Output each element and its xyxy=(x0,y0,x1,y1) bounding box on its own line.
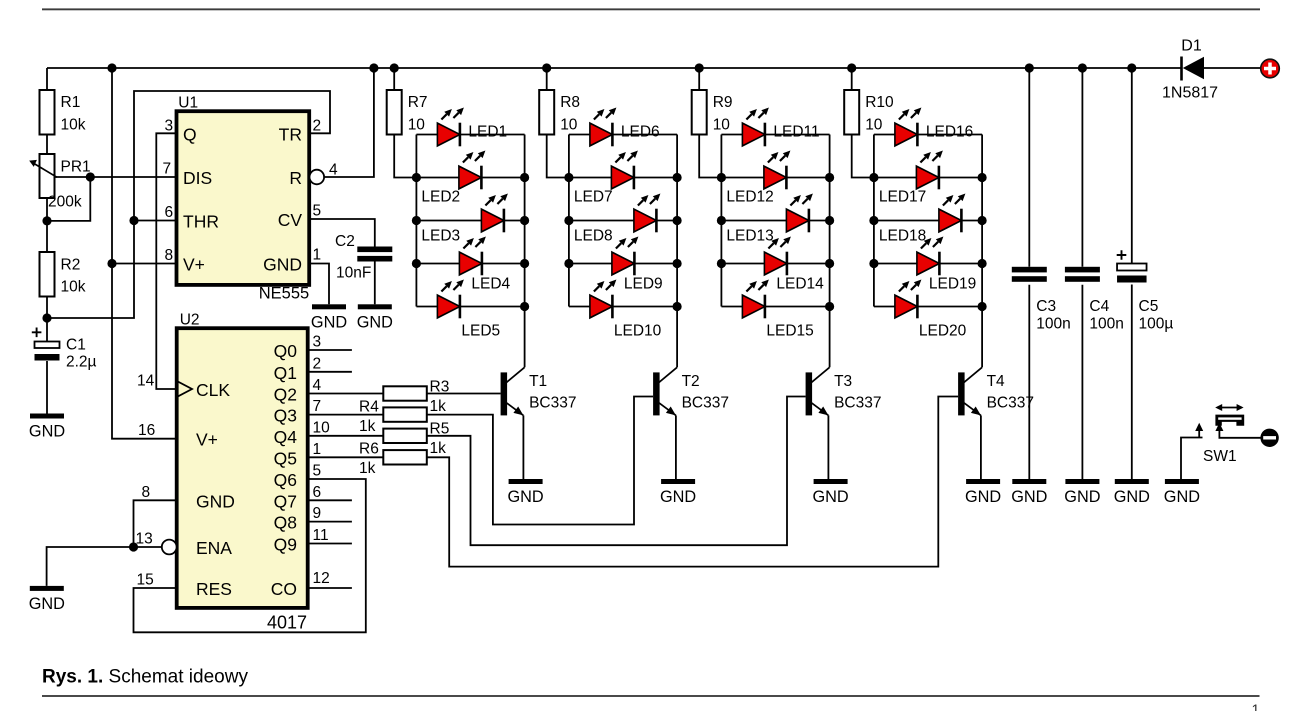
U2 pin numbers xyxy=(136,334,331,589)
LED LED1 xyxy=(437,108,507,147)
junction rail / R7 xyxy=(390,63,399,72)
svg-text:4: 4 xyxy=(313,377,322,394)
svg-text:LED13: LED13 xyxy=(726,228,773,245)
svg-text:T4: T4 xyxy=(987,373,1005,390)
wire V+ rail xyxy=(47,67,1182,69)
wire rail to R7 xyxy=(393,68,395,90)
svg-text:GND: GND xyxy=(508,488,544,506)
wire LED ladder right rail to collector xyxy=(829,135,831,368)
wire LED ladder right rail to collector xyxy=(676,135,678,368)
wire U2 Q5 to R6 xyxy=(308,456,384,458)
svg-text:C5: C5 xyxy=(1139,298,1159,315)
SW1 left contact arrow xyxy=(1195,423,1203,438)
wire T2 emitter to ground xyxy=(675,415,677,479)
junction left rail rung 3 xyxy=(564,216,573,225)
svg-text:R2: R2 xyxy=(61,257,81,274)
svg-text:4: 4 xyxy=(329,162,338,179)
svg-text:6: 6 xyxy=(165,204,174,221)
wire U2 Q3 to R4 xyxy=(308,414,384,416)
junction right rail rung 5 xyxy=(978,302,987,311)
transistor T2 xyxy=(653,367,729,415)
ground C3 xyxy=(1011,479,1047,506)
wire LED17 rung xyxy=(874,177,982,179)
ground T3 xyxy=(813,479,849,506)
junction left rail rung 3 xyxy=(869,216,878,225)
wire C4 to ground xyxy=(1081,285,1083,479)
U2 CLK triangle xyxy=(178,382,192,397)
junction THR / TR loop xyxy=(129,216,138,225)
junction left rail rung 4 xyxy=(564,259,573,268)
svg-text:R6: R6 xyxy=(359,441,379,458)
wire SW1 left contact to ground xyxy=(1181,438,1203,480)
junction left rail rung 3 xyxy=(717,216,726,225)
wire LED7 rung xyxy=(569,177,677,179)
svg-text:LED7: LED7 xyxy=(574,189,613,206)
svg-text:Q2: Q2 xyxy=(274,385,297,405)
svg-text:C2: C2 xyxy=(335,233,355,250)
svg-text:5: 5 xyxy=(313,463,322,480)
junction left rail rung 2 xyxy=(869,173,878,182)
LED LED2 xyxy=(421,151,485,206)
wire R4 to T2 base xyxy=(427,397,653,525)
wire U1 pin 8 V+ xyxy=(112,263,177,265)
svg-text:10: 10 xyxy=(713,117,731,134)
LED LED4 xyxy=(459,237,510,293)
LED LED3 xyxy=(421,194,508,245)
svg-text:100n: 100n xyxy=(1036,316,1070,333)
svg-text:GND: GND xyxy=(660,488,696,506)
resistor R8 xyxy=(539,90,580,135)
svg-text:R10: R10 xyxy=(865,94,894,111)
LED LED16 xyxy=(895,108,973,147)
svg-text:LED3: LED3 xyxy=(421,228,460,245)
svg-text:1k: 1k xyxy=(359,460,376,477)
svg-text:LED20: LED20 xyxy=(919,323,967,340)
svg-text:LED8: LED8 xyxy=(574,228,613,245)
wire rail to C5 xyxy=(1131,68,1133,264)
wire R2 to node C1 xyxy=(46,297,48,319)
LED LED18 xyxy=(879,194,966,245)
U2 output stub Q1 xyxy=(308,371,352,373)
svg-text:D1: D1 xyxy=(1181,38,1202,55)
svg-text:LED17: LED17 xyxy=(879,189,926,206)
ground T2 xyxy=(660,479,696,506)
LED LED17 xyxy=(879,151,943,206)
svg-text:CV: CV xyxy=(278,210,303,230)
svg-text:Q5: Q5 xyxy=(274,448,297,468)
wire U1 GND pin 1 to ground xyxy=(309,264,329,305)
ground C1 xyxy=(29,414,65,441)
wire LED ladder right rail to collector xyxy=(981,135,983,368)
wire D1 to plus terminal xyxy=(1204,67,1261,69)
capacitor C3 xyxy=(1012,267,1071,333)
junction left rail rung 4 xyxy=(412,259,421,268)
svg-text:10k: 10k xyxy=(61,117,86,134)
wire rail to C3 xyxy=(1028,68,1030,267)
wire U2 RES pin 15 to Q6 loop xyxy=(134,479,366,632)
svg-text:LED2: LED2 xyxy=(421,189,460,206)
wire R9 to LED ladder xyxy=(699,135,721,178)
wire LED15 rung xyxy=(721,306,829,308)
wire U2 GND pin 8 to ENA net xyxy=(134,500,177,547)
wire rail to V+ pins (U1 pin 8 and U2 pin 16) xyxy=(112,68,177,439)
svg-text:GND: GND xyxy=(1064,488,1100,506)
LED LED7 xyxy=(574,151,638,206)
svg-text:LED15: LED15 xyxy=(766,323,813,340)
wire LED ladder left rail xyxy=(568,135,570,307)
wire R5 to T3 base xyxy=(427,397,806,546)
junction V+ drop / U1 pin 8 xyxy=(107,259,116,268)
svg-text:TR: TR xyxy=(279,125,302,145)
wire TR to THR loop xyxy=(47,91,330,318)
svg-text:U1: U1 xyxy=(178,95,198,112)
wire LED ladder right rail to collector xyxy=(524,135,526,368)
wire R7 to LED ladder xyxy=(394,135,416,178)
capacitor C5 xyxy=(1117,250,1174,332)
ground C5 xyxy=(1114,479,1150,506)
wire C3 to ground xyxy=(1028,285,1030,479)
wire R3 to T1 base xyxy=(427,393,501,395)
svg-text:RES: RES xyxy=(196,579,232,599)
wire wiper tap down to R2 top node xyxy=(47,177,90,221)
svg-text:CLK: CLK xyxy=(196,380,230,400)
svg-text:14: 14 xyxy=(137,373,155,390)
svg-text:NE555: NE555 xyxy=(259,285,309,303)
svg-text:GND: GND xyxy=(965,488,1001,506)
svg-text:10k: 10k xyxy=(61,279,86,296)
junction rail / C3 xyxy=(1025,63,1034,72)
svg-text:Q8: Q8 xyxy=(274,513,297,533)
svg-text:1k: 1k xyxy=(430,440,447,457)
svg-text:LED14: LED14 xyxy=(776,276,824,293)
resistor R4 xyxy=(359,399,427,436)
svg-text:PR1: PR1 xyxy=(61,159,91,176)
wire U1 pin 6 THR xyxy=(134,220,177,222)
svg-text:1k: 1k xyxy=(359,418,376,435)
U2 output stub CO pin 12 xyxy=(308,587,352,589)
svg-text:7: 7 xyxy=(313,398,322,415)
junction PR1 bottom / R2 top xyxy=(42,216,51,225)
wire T4 emitter to ground xyxy=(980,415,982,479)
svg-text:3: 3 xyxy=(313,334,322,351)
svg-text:Q0: Q0 xyxy=(274,341,298,361)
junction right rail rung 4 xyxy=(978,259,987,268)
svg-text:GND: GND xyxy=(29,595,65,613)
junction left rail rung 2 xyxy=(717,173,726,182)
U2 output stub Q0 xyxy=(308,349,352,351)
wire U1 R pin 4 to rail xyxy=(324,68,374,177)
svg-text:16: 16 xyxy=(138,422,155,439)
svg-text:GND: GND xyxy=(263,255,302,275)
U1 pin numbers 3 7 6 8 2 4 5 1 xyxy=(163,117,339,264)
svg-text:V+: V+ xyxy=(183,255,205,275)
ground ENA xyxy=(29,586,65,613)
terminal minus supply xyxy=(1260,429,1278,447)
wire LED10 rung xyxy=(569,306,677,308)
svg-text:LED18: LED18 xyxy=(879,228,926,245)
U2 ENA inversion bubble xyxy=(162,540,177,555)
junction left rail rung 4 xyxy=(717,259,726,268)
wire PR1 to R2 xyxy=(46,198,48,252)
svg-text:T1: T1 xyxy=(529,373,547,390)
U1 pin 4 R inversion bubble xyxy=(310,170,325,185)
svg-text:100µ: 100µ xyxy=(1139,316,1174,333)
capacitor C2 xyxy=(335,233,392,282)
svg-text:ENA: ENA xyxy=(196,538,232,558)
junction right rail rung 5 xyxy=(520,302,529,311)
svg-text:5: 5 xyxy=(313,203,322,220)
wire U2 Q2 to R3 xyxy=(308,393,384,395)
diode D1 1N5817 xyxy=(1162,38,1218,102)
svg-text:T3: T3 xyxy=(834,373,852,390)
wire LED12 rung xyxy=(721,177,829,179)
junction wiper/DIS xyxy=(86,172,95,181)
wire C5 to ground xyxy=(1131,285,1133,480)
LED LED19 xyxy=(917,237,976,293)
trimmer PR1 xyxy=(29,154,90,211)
svg-text:7: 7 xyxy=(163,161,172,178)
counter U2 4017 body xyxy=(177,312,308,633)
svg-text:Q9: Q9 xyxy=(274,535,297,555)
svg-text:BC337: BC337 xyxy=(987,395,1034,412)
svg-text:Q4: Q4 xyxy=(274,427,298,447)
wire LED ladder left rail xyxy=(415,135,417,307)
svg-text:3: 3 xyxy=(165,117,174,134)
wire R8 to LED ladder xyxy=(547,135,569,178)
LED LED20 xyxy=(895,280,967,340)
SW1 right contact arrow xyxy=(1215,423,1223,431)
svg-text:100n: 100n xyxy=(1089,316,1123,333)
svg-text:200k: 200k xyxy=(48,194,82,211)
svg-text:BC337: BC337 xyxy=(834,395,881,412)
LED LED15 xyxy=(742,280,813,340)
wire rail to R8 xyxy=(546,68,548,90)
svg-text:R4: R4 xyxy=(359,399,379,416)
U2 output stub Q9 xyxy=(308,543,352,545)
transistor T3 xyxy=(806,367,882,415)
svg-text:13: 13 xyxy=(136,531,153,548)
junction rail / R pin wire xyxy=(369,63,378,72)
transistor T4 xyxy=(958,367,1034,415)
junction right rail rung 4 xyxy=(520,259,529,268)
svg-text:LED11: LED11 xyxy=(773,124,819,141)
junction right rail rung 2 xyxy=(520,173,529,182)
svg-text:R: R xyxy=(289,168,302,188)
wire C1 to ground xyxy=(46,361,48,414)
svg-text:10: 10 xyxy=(313,419,331,436)
junction left rail rung 4 xyxy=(869,259,878,268)
svg-text:1: 1 xyxy=(313,247,322,264)
junction right rail rung 5 xyxy=(673,302,682,311)
wire LED11 rung xyxy=(721,134,829,136)
wire U1 CV pin 5 to C2 xyxy=(309,219,375,247)
LED LED9 xyxy=(612,237,663,293)
svg-text:2: 2 xyxy=(313,355,322,372)
junction right rail rung 5 xyxy=(825,302,834,311)
svg-text:6: 6 xyxy=(313,484,322,501)
svg-text:Q: Q xyxy=(183,125,197,145)
svg-text:GND: GND xyxy=(196,491,235,511)
svg-text:Q7: Q7 xyxy=(274,491,297,511)
svg-text:8: 8 xyxy=(142,484,151,501)
junction rail / R10 xyxy=(847,63,856,72)
wire C2 to ground xyxy=(374,261,376,304)
U2 output stub Q8 xyxy=(308,521,352,523)
svg-text:2.2µ: 2.2µ xyxy=(66,354,97,371)
wire LED9 rung xyxy=(569,263,677,265)
wire T1 emitter to ground xyxy=(522,415,524,479)
svg-text:T2: T2 xyxy=(682,373,700,390)
capacitor C4 xyxy=(1065,267,1124,333)
ground C2 xyxy=(357,304,393,331)
wire LED4 rung xyxy=(416,263,524,265)
op-amp U1 NE555 body xyxy=(177,95,310,303)
LED LED12 xyxy=(726,151,790,206)
junction rail / V+ drop xyxy=(107,63,116,72)
node C1 top / THR xyxy=(42,313,51,322)
ground T4 xyxy=(965,479,1001,506)
svg-text:10: 10 xyxy=(560,117,578,134)
junction GND pin / ENA wire xyxy=(129,542,138,551)
wire LED14 rung xyxy=(721,263,829,265)
svg-text:11: 11 xyxy=(313,527,329,544)
wire LED3 rung xyxy=(416,220,524,222)
svg-text:1: 1 xyxy=(313,441,322,458)
switch SW1 slider xyxy=(1203,404,1244,465)
LED LED10 xyxy=(590,280,662,340)
svg-text:15: 15 xyxy=(137,572,154,589)
svg-text:LED1: LED1 xyxy=(468,124,507,141)
junction right rail rung 3 xyxy=(825,216,834,225)
svg-text:Q3: Q3 xyxy=(274,406,297,426)
svg-text:GND: GND xyxy=(29,423,65,441)
resistor R9 xyxy=(692,90,733,135)
junction right rail rung 2 xyxy=(978,173,987,182)
ground SW1 xyxy=(1164,479,1200,506)
ground U1 pin 1 xyxy=(311,304,347,331)
ground C4 xyxy=(1064,479,1100,506)
wire rail to C4 xyxy=(1081,68,1083,267)
svg-text:1k: 1k xyxy=(430,398,447,415)
junction right rail rung 4 xyxy=(825,259,834,268)
svg-text:4017: 4017 xyxy=(267,613,307,633)
resistor R2 xyxy=(40,252,86,297)
svg-text:R1: R1 xyxy=(61,94,81,111)
svg-text:BC337: BC337 xyxy=(682,395,729,412)
wire LED8 rung xyxy=(569,220,677,222)
junction left rail rung 2 xyxy=(412,173,421,182)
LED LED13 xyxy=(726,194,813,245)
svg-text:GND: GND xyxy=(1114,488,1150,506)
svg-text:GND: GND xyxy=(1011,488,1047,506)
LED LED11 xyxy=(742,108,819,147)
wire PR1 wiper to DIS xyxy=(54,176,177,178)
wire R6 to T4 base xyxy=(427,397,958,567)
svg-text:GND: GND xyxy=(311,314,347,332)
wire R10 to LED ladder xyxy=(852,135,874,178)
junction right rail rung 3 xyxy=(978,216,987,225)
wire SW1 right contact to minus terminal xyxy=(1219,430,1260,438)
svg-text:C3: C3 xyxy=(1036,298,1056,315)
junction rail / C5 xyxy=(1127,63,1136,72)
wire LED ladder left rail xyxy=(720,135,722,307)
wire rail to R1 xyxy=(46,68,48,90)
junction right rail rung 3 xyxy=(673,216,682,225)
svg-text:LED6: LED6 xyxy=(621,124,660,141)
svg-text:1: 1 xyxy=(1251,703,1259,711)
svg-text:2: 2 xyxy=(313,117,322,134)
svg-text:LED9: LED9 xyxy=(624,276,663,293)
ground T1 xyxy=(508,479,544,506)
svg-text:9: 9 xyxy=(313,505,322,522)
U2 pin names xyxy=(196,341,297,599)
svg-text:10: 10 xyxy=(408,117,426,134)
junction right rail rung 2 xyxy=(673,173,682,182)
svg-text:LED12: LED12 xyxy=(726,189,773,206)
svg-text:U2: U2 xyxy=(180,312,200,329)
junction rail / C4 xyxy=(1078,63,1087,72)
LED LED5 xyxy=(437,280,500,340)
wire R1 to PR1 xyxy=(46,135,48,155)
wire LED ladder left rail xyxy=(873,135,875,307)
svg-text:Q1: Q1 xyxy=(274,363,297,383)
svg-text:V+: V+ xyxy=(196,430,218,450)
resistor R5 xyxy=(383,421,449,458)
wire rail to R10 xyxy=(851,68,853,90)
svg-text:1N5817: 1N5817 xyxy=(1162,85,1218,102)
U1 pin names xyxy=(183,125,302,275)
junction right rail rung 3 xyxy=(520,216,529,225)
wire LED6 rung xyxy=(569,134,677,136)
wire T3 emitter to ground xyxy=(827,415,829,479)
svg-text:LED19: LED19 xyxy=(929,276,976,293)
svg-text:12: 12 xyxy=(313,570,330,587)
svg-text:LED5: LED5 xyxy=(461,323,500,340)
svg-text:CO: CO xyxy=(271,579,297,599)
svg-text:LED10: LED10 xyxy=(614,323,662,340)
junction right rail rung 2 xyxy=(825,173,834,182)
wire U2 Q4 to R5 xyxy=(308,435,384,437)
svg-text:8: 8 xyxy=(165,247,174,264)
junction left rail rung 2 xyxy=(564,173,573,182)
svg-text:10nF: 10nF xyxy=(336,265,371,282)
wire U1 Q output to U2 CLK xyxy=(156,133,176,389)
wire LED18 rung xyxy=(874,220,982,222)
wire LED16 rung xyxy=(874,134,982,136)
resistor R1 xyxy=(40,90,86,135)
svg-text:GND: GND xyxy=(813,488,849,506)
wire U2 ENA to ground xyxy=(47,547,162,586)
svg-text:R9: R9 xyxy=(713,94,733,111)
wire LED13 rung xyxy=(721,220,829,222)
junction rail / R9 xyxy=(695,63,704,72)
resistor R6 xyxy=(359,441,427,478)
svg-text:DIS: DIS xyxy=(183,168,212,188)
wire LED20 rung xyxy=(874,306,982,308)
capacitor C1 xyxy=(32,318,97,371)
terminal plus supply xyxy=(1261,59,1280,78)
resistor R10 xyxy=(844,90,894,135)
wire LED19 rung xyxy=(874,263,982,265)
svg-text:LED4: LED4 xyxy=(471,276,510,293)
LED LED6 xyxy=(590,108,660,147)
svg-text:R7: R7 xyxy=(408,94,428,111)
U2 output stub Q7 xyxy=(308,499,352,501)
resistor R3 xyxy=(383,379,449,416)
wire LED5 rung xyxy=(416,306,524,308)
svg-text:Rys. 1. Schemat ideowy: Rys. 1. Schemat ideowy xyxy=(42,667,248,688)
svg-text:BC337: BC337 xyxy=(529,395,576,412)
